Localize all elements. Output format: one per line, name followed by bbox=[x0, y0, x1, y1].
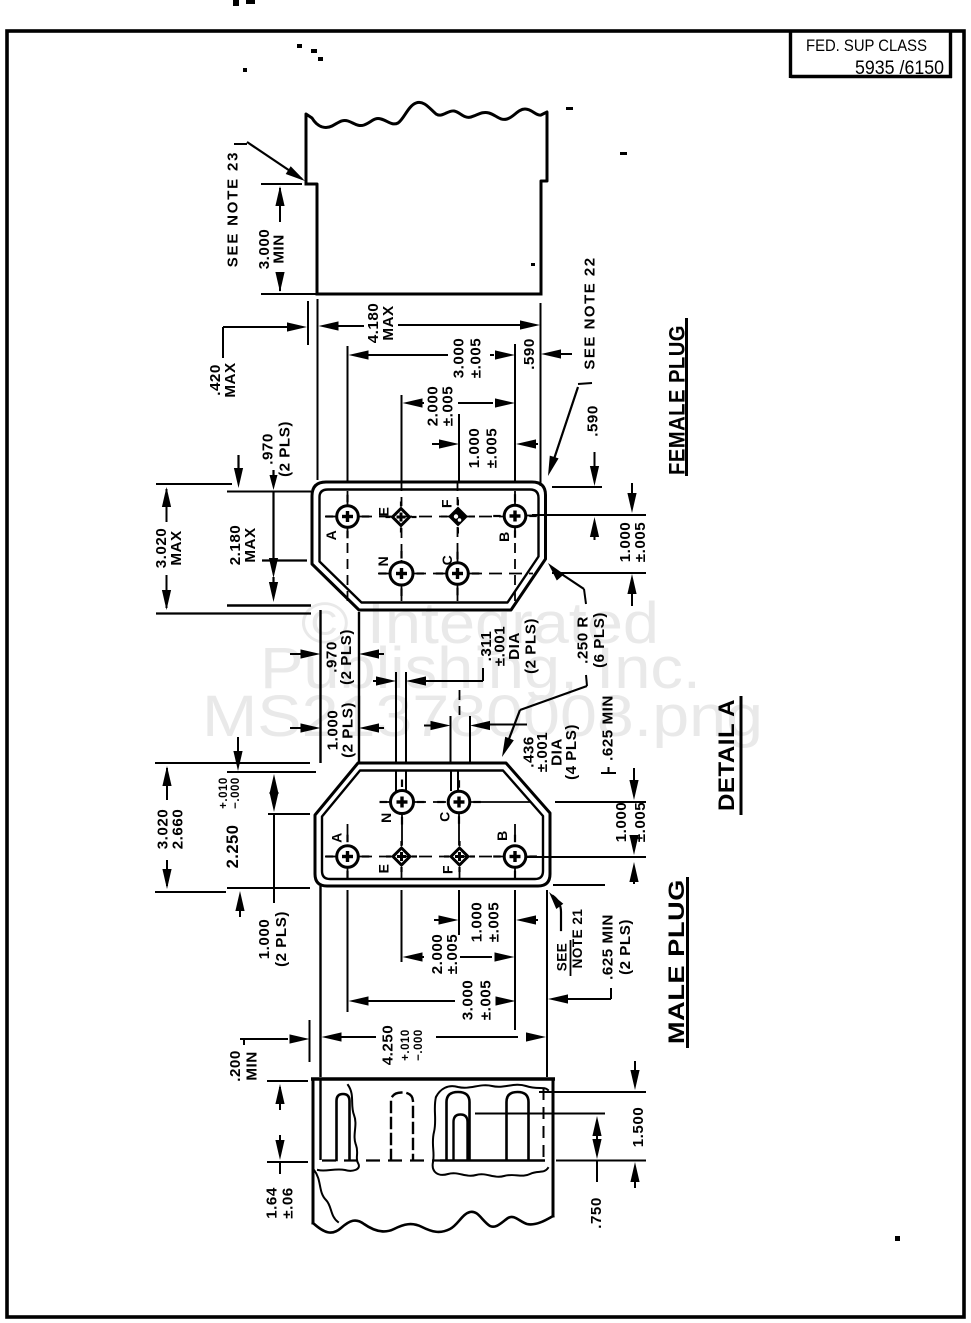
ext line male inner top left bbox=[227, 771, 316, 773]
see note 21 label bbox=[555, 909, 586, 976]
centerline col C-F male bbox=[451, 690, 460, 845]
dim 4.250 +010 -000 bbox=[322, 1025, 547, 1066]
contact 2 socket hidden dashed bbox=[391, 1093, 413, 1161]
svg-text:±.005: ±.005 bbox=[632, 802, 649, 842]
dim 3.000 MIN bbox=[256, 186, 288, 292]
pin F female bbox=[441, 500, 475, 534]
ext col F below male bbox=[458, 890, 460, 935]
dim 1.64 +-.06 bbox=[264, 1084, 297, 1219]
label .625 MIN 2PLS bbox=[548, 914, 634, 1003]
pin C male bbox=[437, 780, 481, 824]
dim 2.000 +-.005 bottom bbox=[403, 934, 515, 975]
ext col E below male bbox=[401, 890, 403, 962]
watermark line 2 bbox=[260, 636, 701, 701]
svg-text:±.005: ±.005 bbox=[468, 338, 485, 378]
ext col B below male bbox=[514, 890, 516, 1030]
svg-text:C: C bbox=[437, 811, 453, 822]
svg-text:B: B bbox=[496, 531, 512, 542]
ext line row NC male right bbox=[555, 801, 646, 803]
ext line pin col B above bbox=[514, 344, 516, 481]
male plug inner outline bbox=[322, 771, 543, 880]
ext line 1.64 bottom bbox=[267, 1161, 308, 1163]
svg-text:.970: .970 bbox=[260, 433, 277, 465]
svg-text:3.000: 3.000 bbox=[451, 338, 468, 379]
ext male right edge below bbox=[546, 890, 548, 1077]
dim .970 2PLS chamfer width bbox=[290, 629, 384, 685]
ext line pin col E above bbox=[401, 395, 403, 481]
svg-text:F: F bbox=[439, 499, 455, 508]
dim 2.000 +-.005 top bbox=[403, 386, 516, 427]
dim .420 MAX bbox=[207, 321, 341, 397]
svg-text:.625 MIN: .625 MIN bbox=[600, 914, 617, 980]
ext line 3.020 male bottom bbox=[155, 891, 226, 893]
svg-text:±.06: ±.06 bbox=[280, 1187, 297, 1218]
section hidden right wall dashed bbox=[543, 1088, 545, 1158]
dim 1.000 +-.005 female right bbox=[617, 483, 649, 606]
dim 1.000 2PLS male chamfer height bbox=[256, 774, 290, 967]
dim 3.020 2.660 bbox=[155, 766, 187, 889]
svg-text:.750: .750 bbox=[588, 1197, 605, 1229]
dim 3.020 MAX bbox=[153, 487, 185, 610]
svg-text:C: C bbox=[439, 555, 455, 566]
dim 1.000 2PLS chamfer width male bbox=[290, 702, 384, 758]
pin A male bbox=[326, 835, 370, 879]
pin F male label bbox=[440, 865, 456, 874]
svg-text:±.005: ±.005 bbox=[632, 522, 649, 562]
pin C female label bbox=[439, 555, 455, 566]
svg-text:MAX: MAX bbox=[168, 530, 185, 565]
dim 1.000 +-.005 bottom bbox=[434, 902, 538, 943]
dim 3.000 +-.005 bottom bbox=[349, 980, 516, 1021]
dim .590 top bbox=[521, 338, 572, 370]
ext line female plug right edge bbox=[540, 303, 542, 486]
ext line 1.64 top bbox=[267, 1080, 308, 1082]
pin A male label bbox=[329, 832, 345, 843]
tear blob around contacts bbox=[433, 1085, 548, 1177]
svg-text:(2 PLS): (2 PLS) bbox=[340, 702, 357, 758]
svg-text:E: E bbox=[376, 864, 392, 874]
ext line row NC right bbox=[552, 572, 646, 574]
svg-text:1.500: 1.500 bbox=[630, 1107, 647, 1148]
pin F male bbox=[444, 841, 475, 872]
fed sup class number bbox=[855, 58, 944, 79]
svg-text:+.010: +.010 bbox=[218, 777, 230, 809]
svg-text:±.005: ±.005 bbox=[486, 902, 503, 942]
see note 21 leader bbox=[549, 892, 563, 930]
ext line pin tip right bbox=[475, 1113, 605, 1115]
svg-text:N: N bbox=[375, 556, 391, 567]
pin B male label bbox=[494, 830, 510, 841]
centerline col B female bbox=[514, 491, 516, 601]
svg-text:1.64: 1.64 bbox=[264, 1187, 281, 1219]
svg-text:(2 PLS): (2 PLS) bbox=[617, 919, 634, 975]
ext line boot step edge bbox=[317, 299, 319, 480]
svg-text:SEE NOTE 23: SEE NOTE 23 bbox=[225, 151, 242, 268]
dim 3.000 +-.005 top bbox=[349, 338, 516, 379]
label .250 R 6PLS with leaders bbox=[502, 563, 608, 757]
pin N male bbox=[380, 780, 425, 825]
ext line row AEFB right bbox=[532, 514, 646, 516]
dim 1.000 +-.005 top bbox=[432, 428, 538, 469]
svg-text:MS213780008.png: MS213780008.png bbox=[202, 684, 763, 749]
svg-text:.250 R: .250 R bbox=[575, 616, 592, 664]
svg-text:1.000: 1.000 bbox=[466, 428, 483, 469]
boot outline with broken wavy top edge bbox=[306, 102, 547, 294]
pin N male label bbox=[378, 812, 394, 823]
ext line pin col A above bbox=[347, 346, 349, 481]
ext line cavity bottom right bbox=[556, 1160, 646, 1162]
svg-text:.625 MIN: .625 MIN bbox=[600, 695, 617, 761]
svg-text:MALE PLUG: MALE PLUG bbox=[664, 879, 689, 1044]
svg-text:.200: .200 bbox=[227, 1050, 244, 1082]
svg-text:NOTE 21: NOTE 21 bbox=[570, 909, 585, 969]
ext line 3.020 bottom bbox=[156, 612, 311, 614]
ext line top of notch bbox=[261, 183, 302, 185]
centerline col B male bbox=[514, 824, 516, 878]
pin C female bbox=[436, 552, 480, 596]
pin E female label bbox=[376, 507, 392, 517]
fed sup class text bbox=[806, 36, 927, 55]
ext line shell edge x309 bbox=[309, 1020, 311, 1062]
dim 1.000 +-.005 male right bbox=[613, 768, 649, 884]
dim .590 lower bbox=[585, 405, 602, 540]
centerline col A female bbox=[347, 491, 349, 601]
pin E male label bbox=[376, 864, 392, 874]
dim .436 +-.001 DIA leader bbox=[424, 721, 580, 780]
svg-text:E: E bbox=[376, 507, 392, 517]
dim 2.180 MAX bbox=[227, 470, 278, 602]
centerline col E below bbox=[401, 867, 403, 878]
section wavy bottom break line bbox=[313, 1212, 553, 1233]
svg-text:MIN: MIN bbox=[244, 1051, 261, 1080]
svg-text:SEE: SEE bbox=[555, 943, 570, 972]
contact 3 inner pin bbox=[454, 1115, 468, 1161]
dim 1.500 bbox=[630, 1061, 647, 1188]
male plug outer outline bbox=[315, 763, 550, 886]
svg-text:F: F bbox=[440, 865, 456, 874]
svg-text:1.000: 1.000 bbox=[256, 919, 273, 960]
svg-text:±.005: ±.005 bbox=[484, 428, 501, 468]
svg-text:(2 PLS): (2 PLS) bbox=[338, 629, 355, 685]
pin B female label bbox=[496, 531, 512, 542]
centerline row AEFB female bbox=[325, 516, 536, 517]
long ext line x320 upper bbox=[319, 610, 321, 763]
centerline col A male bbox=[347, 824, 349, 878]
pin B female bbox=[493, 494, 537, 538]
detail a title bbox=[714, 696, 741, 815]
pin A female bbox=[326, 495, 370, 539]
ext line female top edge right bbox=[552, 486, 602, 488]
svg-text:+.010: +.010 bbox=[400, 1029, 412, 1061]
centerline col E-N female bbox=[401, 481, 403, 601]
female plug title bbox=[665, 318, 690, 476]
dim 4.180 MAX bbox=[341, 303, 540, 344]
svg-text:3.000: 3.000 bbox=[460, 980, 477, 1021]
ext line 3.020 top bbox=[156, 483, 232, 485]
female plug inner outline bbox=[320, 490, 539, 603]
dim .311 +-.001 DIA leader bbox=[373, 618, 540, 686]
svg-text:(2 PLS): (2 PLS) bbox=[277, 421, 294, 477]
ext line female bottom left bbox=[227, 604, 311, 607]
svg-text:FED. SUP CLASS: FED. SUP CLASS bbox=[806, 36, 927, 55]
female plug outer outline bbox=[312, 482, 546, 610]
tear line left inside section bbox=[318, 1085, 359, 1171]
ext line boot outer edge bbox=[307, 301, 309, 345]
ext line male top left bbox=[155, 762, 310, 764]
svg-text:DIA: DIA bbox=[506, 632, 523, 660]
centerline row NC male bbox=[380, 801, 530, 803]
svg-text:.590: .590 bbox=[521, 338, 538, 370]
ext line chamfer corner x359 bbox=[358, 612, 360, 763]
svg-text:2.660: 2.660 bbox=[170, 809, 187, 850]
watermark line 3 bbox=[202, 684, 763, 749]
svg-text:1.000: 1.000 bbox=[469, 902, 486, 943]
ext line boot bottom left bbox=[261, 293, 317, 295]
ext line pin col F above bbox=[458, 414, 460, 481]
svg-text:MAX: MAX bbox=[222, 362, 239, 397]
svg-text:.590: .590 bbox=[585, 405, 602, 437]
svg-text:MIN: MIN bbox=[271, 234, 288, 263]
fed sup class title box bbox=[791, 31, 953, 78]
section cavity left wall bbox=[319, 1078, 321, 1160]
ext line chamfer start left bbox=[262, 559, 307, 561]
tear line bottom left corner bbox=[314, 1170, 338, 1222]
svg-text:4.250: 4.250 bbox=[380, 1025, 397, 1066]
ext line 2.180 top bbox=[227, 491, 311, 493]
centerline col F below bbox=[459, 867, 461, 878]
section shell outline bbox=[313, 1079, 553, 1223]
pin N female bbox=[379, 551, 424, 596]
svg-text:2.250: 2.250 bbox=[224, 825, 242, 869]
pin B male bbox=[493, 835, 537, 879]
male plug title bbox=[664, 877, 689, 1048]
dim .750 bbox=[588, 1116, 605, 1229]
pin C male label bbox=[437, 811, 453, 822]
svg-text:(2 PLS): (2 PLS) bbox=[273, 911, 290, 967]
svg-text:(2 PLS): (2 PLS) bbox=[523, 618, 540, 674]
contact 3 socket bbox=[447, 1092, 470, 1160]
svg-text:B: B bbox=[494, 830, 510, 841]
svg-text:SEE NOTE 22: SEE NOTE 22 bbox=[582, 256, 599, 369]
svg-text:MAX: MAX bbox=[380, 305, 397, 340]
stray specks top margin bbox=[233, 0, 900, 1241]
pin E male bbox=[386, 841, 417, 872]
svg-text:1.000: 1.000 bbox=[613, 802, 630, 843]
svg-text:5935 /6150: 5935 /6150 bbox=[855, 58, 944, 79]
svg-text:±.005: ±.005 bbox=[444, 934, 461, 974]
see note 23 label bbox=[225, 151, 242, 268]
svg-text:N: N bbox=[378, 812, 394, 823]
centerline col N-E male bbox=[396, 771, 406, 845]
ext col A below male bbox=[347, 890, 349, 1012]
svg-text:±.005: ±.005 bbox=[478, 980, 495, 1020]
svg-text:±.005: ±.005 bbox=[440, 386, 457, 426]
ext line male bottom right bbox=[553, 884, 605, 886]
section top edge bbox=[311, 1077, 555, 1081]
svg-text:MAX: MAX bbox=[242, 527, 259, 562]
svg-text:(4 PLS): (4 PLS) bbox=[563, 724, 580, 780]
see note 22 label bbox=[582, 256, 599, 369]
section cavity bottom dashed bbox=[322, 1159, 545, 1161]
dim .200 MIN bbox=[227, 1034, 310, 1081]
pin F female label bbox=[439, 499, 455, 508]
label .625 MIN upper bbox=[600, 695, 617, 773]
centerline row AEFB male bbox=[325, 856, 537, 858]
see note 22 leader bbox=[548, 383, 592, 476]
see note 23 leader bbox=[234, 142, 305, 181]
ext line male chamfer end left bbox=[268, 813, 310, 815]
long ext line x320 lower bbox=[319, 886, 321, 1077]
pin hole dia lines 436 bbox=[451, 716, 471, 764]
centerline col F-C female bbox=[457, 481, 459, 601]
ext line row AEFB male right bbox=[527, 856, 646, 858]
svg-text:(6 PLS): (6 PLS) bbox=[591, 612, 608, 668]
contact 1 socket bbox=[337, 1094, 350, 1160]
pin A female label bbox=[323, 530, 339, 541]
pin E female bbox=[386, 502, 417, 533]
dim .970 2PLS female left bbox=[234, 421, 294, 488]
socket hole dia lines 311 bbox=[396, 672, 406, 764]
svg-text:A: A bbox=[323, 530, 339, 541]
svg-text:DETAIL A: DETAIL A bbox=[714, 699, 739, 811]
ext line male bottom left bbox=[227, 887, 310, 889]
svg-text:−.000: −.000 bbox=[413, 1029, 425, 1061]
pin N female label bbox=[375, 556, 391, 567]
centerline row NC female bbox=[378, 573, 533, 575]
dim 2.250 +010 -000 bbox=[218, 737, 245, 917]
svg-text:A: A bbox=[329, 832, 345, 843]
svg-text:−.000: −.000 bbox=[230, 777, 242, 809]
watermark line 1 bbox=[301, 591, 659, 656]
contact 4 socket bbox=[507, 1092, 529, 1160]
ext line section top right bbox=[539, 1091, 646, 1093]
